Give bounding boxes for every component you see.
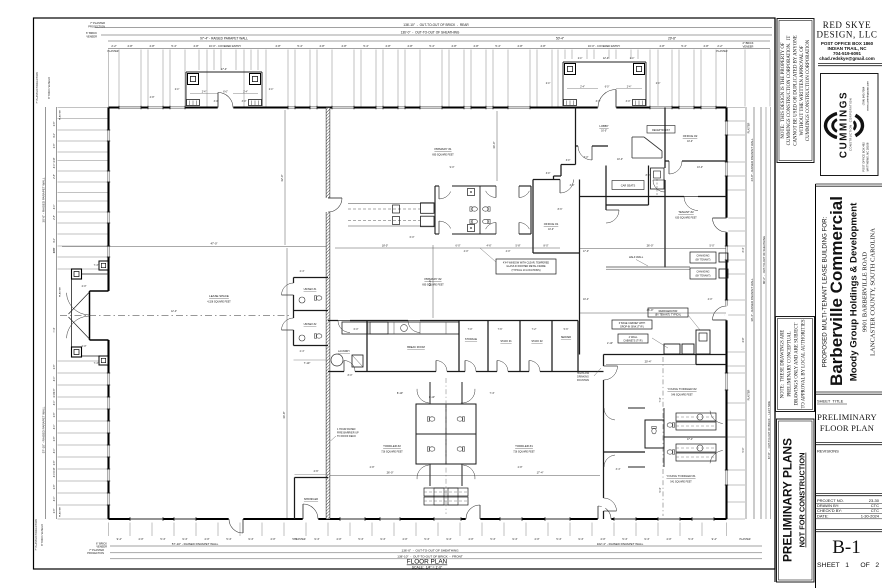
svg-text:7'-6": 7'-6" — [498, 328, 503, 331]
svg-text:3'-0": 3'-0" — [584, 156, 589, 159]
svg-text:4'-0": 4'-0" — [54, 238, 56, 243]
svg-text:2'-0": 2'-0" — [82, 285, 87, 288]
svg-text:4'-0": 4'-0" — [468, 537, 473, 541]
svg-text:2'-4": 2'-4" — [175, 89, 180, 91]
svg-text:4'-0": 4'-0" — [54, 164, 56, 169]
svg-text:4'-0": 4'-0" — [336, 537, 341, 541]
svg-text:30'-4" - RAISED PARAPET WALL: 30'-4" - RAISED PARAPET WALL — [750, 278, 754, 322]
svg-text:PRELIMINARY PLANS: PRELIMINARY PLANS — [781, 438, 795, 562]
svg-text:690 SQUARE FEET: 690 SQUARE FEET — [432, 154, 454, 157]
svg-text:9'-4": 9'-4" — [314, 537, 319, 541]
svg-text:29'-8": 29'-8" — [668, 37, 676, 41]
svg-text:STORAGE: STORAGE — [465, 338, 478, 341]
svg-text:4'-8": 4'-8" — [385, 44, 390, 48]
svg-text:7" PLASTER PROJECTION: 7" PLASTER PROJECTION — [36, 72, 39, 103]
svg-text:CAR SEATS: CAR SEATS — [621, 184, 636, 188]
svg-text:7" PLASTER PROJECTION: 7" PLASTER PROJECTION — [35, 519, 38, 550]
svg-text:5'-4": 5'-4" — [681, 44, 686, 48]
svg-text:7" PLASTER: 7" PLASTER — [90, 21, 105, 25]
svg-text:2'-4": 2'-4" — [243, 91, 248, 93]
svg-text:4'-8": 4'-8" — [659, 44, 664, 48]
svg-text:9'-4": 9'-4" — [512, 537, 517, 541]
svg-text:Moody Group Holdings & Develop: Moody Group Holdings & Development — [849, 202, 860, 381]
svg-text:PLASTER: PLASTER — [748, 389, 751, 400]
svg-text:4'-8": 4'-8" — [517, 44, 522, 48]
svg-text:4'-0": 4'-0" — [54, 497, 56, 502]
svg-text:7'-2": 7'-2" — [532, 328, 537, 331]
svg-text:2'-8": 2'-8" — [54, 122, 56, 127]
svg-text:PLASTER: PLASTER — [59, 110, 62, 120]
svg-text:4'-0": 4'-0" — [506, 250, 511, 253]
svg-text:(BY TENANT) TYPICAL: (BY TENANT) TYPICAL — [655, 314, 682, 317]
svg-text:LANCASTER COUNTY, SOUTH CAROLI: LANCASTER COUNTY, SOUTH CAROLINA — [870, 228, 877, 356]
svg-text:5'-4": 5'-4" — [490, 537, 495, 541]
svg-text:NOTE: THESE DRAWINGS ARE: NOTE: THESE DRAWINGS ARE — [781, 330, 786, 399]
svg-text:6" BRICK: 6" BRICK — [86, 31, 97, 35]
svg-text:UNISEX #1: UNISEX #1 — [304, 288, 317, 291]
svg-text:5'-4": 5'-4" — [424, 537, 429, 541]
svg-text:UNISEX #2: UNISEX #2 — [304, 323, 317, 326]
svg-text:2'-8": 2'-8" — [370, 466, 375, 469]
svg-text:17'-0": 17'-0" — [583, 250, 589, 253]
svg-text:36'-0": 36'-0" — [492, 141, 496, 148]
svg-text:9'-4": 9'-4" — [712, 537, 717, 541]
svg-text:2'-4": 2'-4" — [627, 86, 632, 88]
svg-text:4'-0": 4'-0" — [54, 473, 56, 478]
svg-text:5'-4": 5'-4" — [363, 44, 368, 48]
svg-text:9'-4": 9'-4" — [248, 537, 253, 541]
svg-text:2'-4": 2'-4" — [630, 58, 635, 60]
svg-text:Barberville Commercial: Barberville Commercial — [827, 196, 846, 386]
svg-text:8'-6": 8'-6" — [558, 208, 563, 211]
svg-text:2'-8": 2'-8" — [54, 365, 56, 370]
svg-text:86'-2" - OUT-TO-OUT OF SHEAT: 86'-2" - OUT-TO-OUT OF SHEATHING — [762, 236, 766, 284]
svg-text:FLOOR PLAN: FLOOR PLAN — [407, 559, 448, 566]
svg-text:32'-0": 32'-0" — [280, 174, 284, 181]
svg-text:8'-10": 8'-10" — [397, 392, 403, 395]
svg-text:TO ROOF DECK: TO ROOF DECK — [337, 435, 356, 438]
svg-text:2'-2": 2'-2" — [111, 44, 116, 48]
svg-text:CANNOT BE USED OR DUPLICATED B: CANNOT BE USED OR DUPLICATED BY ANYONE — [794, 35, 799, 146]
svg-text:4'-0": 4'-0" — [54, 133, 56, 138]
svg-text:3'-0": 3'-0" — [596, 100, 601, 103]
svg-text:5'-4": 5'-4" — [622, 537, 627, 541]
svg-text:PLASTER: PLASTER — [59, 287, 62, 297]
svg-text:12'-4": 12'-4" — [603, 57, 609, 60]
svg-text:2" BRICK: 2" BRICK — [742, 41, 753, 45]
svg-text:CONSTRUCTION CORPORATION: CONSTRUCTION CORPORATION — [849, 98, 853, 151]
svg-text:4'-0": 4'-0" — [54, 425, 56, 430]
svg-text:CUMMINGS: CUMMINGS — [839, 91, 850, 158]
svg-text:2'-4": 2'-4" — [656, 83, 661, 85]
svg-text:TENANT #2: TENANT #2 — [678, 210, 694, 214]
svg-text:2'-8": 2'-8" — [54, 413, 56, 418]
svg-text:9'-4": 9'-4" — [644, 537, 649, 541]
svg-text:4'-8": 4'-8" — [473, 44, 478, 48]
svg-text:50'-4": 50'-4" — [556, 37, 564, 41]
svg-text:4'-0": 4'-0" — [138, 537, 143, 541]
svg-text:136'-0" - OUT-TO-OUT OF SHEA: 136'-0" - OUT-TO-OUT OF SHEATHING — [401, 549, 459, 553]
svg-text:4' WALL: 4' WALL — [629, 336, 639, 339]
svg-text:4'X4' WINDOW WITH CLEAR, TEMPE: 4'X4' WINDOW WITH CLEAR, TEMPERED — [503, 262, 550, 265]
svg-text:5'-0": 5'-0" — [710, 245, 715, 248]
svg-text:(BY TENANT): (BY TENANT) — [696, 275, 711, 278]
svg-text:2'-0": 2'-0" — [82, 345, 87, 348]
svg-text:4'-8": 4'-8" — [540, 44, 545, 48]
svg-text:9'-0": 9'-0" — [450, 166, 455, 169]
svg-text:8'-6": 8'-6" — [646, 174, 651, 177]
svg-text:4'-8": 4'-8" — [703, 44, 708, 48]
svg-text:5'-4": 5'-4" — [160, 537, 165, 541]
svg-text:87'-8" - OUT-TO-OUT OF BRICK: 87'-8" - OUT-TO-OUT OF BRICK - LEFT SIDE — [767, 401, 771, 459]
svg-text:4'-0": 4'-0" — [402, 537, 407, 541]
svg-text:TODDLER #1: TODDLER #1 — [515, 444, 533, 448]
svg-text:17'-4": 17'-4" — [687, 438, 693, 441]
svg-text:SHEET 1 OF 2: SHEET 1 OF 2 — [817, 562, 879, 569]
svg-text:2'-4": 2'-4" — [269, 89, 274, 91]
svg-text:4'-6": 4'-6" — [487, 245, 492, 248]
svg-text:4'-8": 4'-8" — [193, 44, 198, 48]
svg-text:7'-4": 7'-4" — [94, 362, 99, 365]
svg-text:30'-0" - RAISED PARAPET WALL: 30'-0" - RAISED PARAPET WALL — [42, 177, 46, 222]
svg-text:36'-8": 36'-8" — [282, 411, 286, 418]
svg-text:2'-4": 2'-4" — [300, 350, 305, 353]
svg-text:3'-0": 3'-0" — [242, 100, 247, 103]
svg-text:4'-8": 4'-8" — [742, 337, 745, 342]
svg-text:3'-0": 3'-0" — [546, 173, 551, 175]
svg-text:PLASTER: PLASTER — [740, 538, 751, 541]
svg-text:(TYPICAL 10 LOCATIONS): (TYPICAL 10 LOCATIONS) — [511, 269, 540, 272]
svg-text:TODDLER #2: TODDLER #2 — [383, 444, 401, 448]
svg-text:WITHOUT THE WRITTEN APPROVAL O: WITHOUT THE WRITTEN APPROVAL OF — [800, 45, 805, 135]
svg-text:44'-8" - RAISED PARAPET WALL: 44'-8" - RAISED PARAPET WALL — [750, 138, 754, 182]
svg-text:47'-0": 47'-0" — [210, 242, 217, 246]
svg-text:2'-4": 2'-4" — [578, 58, 583, 60]
svg-text:REVISIONS: REVISIONS — [817, 449, 839, 454]
svg-text:5'-8": 5'-8" — [516, 245, 521, 248]
svg-text:4'-0": 4'-0" — [204, 537, 209, 541]
svg-text:8'-10": 8'-10" — [429, 396, 435, 399]
svg-text:6" BRICK VENEER: 6" BRICK VENEER — [48, 77, 51, 99]
svg-text:CUMMINGS CONSTRUCTION CORPORAT: CUMMINGS CONSTRUCTION CORPORATION — [806, 39, 811, 141]
svg-text:1-30-2024: 1-30-2024 — [861, 513, 880, 518]
svg-text:10'-0": 10'-0" — [687, 141, 693, 143]
svg-text:4'-0": 4'-0" — [600, 537, 605, 541]
svg-text:16'-0": 16'-0" — [601, 131, 607, 133]
svg-text:9'-4": 9'-4" — [578, 537, 583, 541]
svg-text:CHANGING: CHANGING — [697, 271, 710, 274]
svg-text:DESIGN, LLC: DESIGN, LLC — [816, 30, 877, 40]
svg-text:4'-8": 4'-8" — [451, 44, 456, 48]
svg-text:7'-4": 7'-4" — [659, 397, 662, 402]
svg-text:3'-4": 3'-4" — [616, 468, 621, 471]
svg-text:CUMMINGS CONSTRUCTION CORPORAT: CUMMINGS CONSTRUCTION CORPORATION. IT — [787, 36, 792, 146]
svg-text:3'-0": 3'-0" — [566, 160, 571, 162]
svg-text:46'-0": 46'-0" — [647, 308, 654, 312]
svg-text:6' BASE CABINET WITH: 6' BASE CABINET WITH — [619, 322, 646, 325]
svg-text:PLASTER: PLASTER — [295, 538, 306, 541]
svg-text:136'-0" - OUT-TO-OUT OF SHEA: 136'-0" - OUT-TO-OUT OF SHEATHING — [401, 31, 460, 35]
svg-text:DRAWINGS ONLY AND ARE SUBJECT: DRAWINGS ONLY AND ARE SUBJECT — [795, 323, 800, 406]
svg-text:5'-0": 5'-0" — [742, 447, 745, 452]
svg-text:FLOOR PLAN: FLOOR PLAN — [820, 423, 874, 433]
svg-text:RECEPTIONIST: RECEPTIONIST — [652, 129, 670, 132]
svg-text:16'-0" - COVERED ENTRY: 16'-0" - COVERED ENTRY — [588, 44, 621, 48]
svg-text:TO APPROVAL BY LOCAL AUTHORITI: TO APPROVAL BY LOCAL AUTHORITIES — [802, 319, 807, 408]
svg-text:6'-0": 6'-0" — [354, 328, 359, 331]
svg-text:MATTHEWS, NC 28106: MATTHEWS, NC 28106 — [866, 142, 870, 171]
svg-text:4'-8": 4'-8" — [127, 44, 132, 48]
svg-text:2'-8": 2'-8" — [54, 461, 56, 466]
svg-text:4'-0": 4'-0" — [534, 537, 539, 541]
svg-text:630 SQUARE FEET: 630 SQUARE FEET — [675, 217, 697, 220]
svg-text:OFFICE #1: OFFICE #1 — [544, 222, 559, 226]
svg-text:4,328 SQUARE FEET: 4,328 SQUARE FEET — [207, 301, 231, 304]
svg-text:4'-0": 4'-0" — [708, 298, 713, 301]
svg-text:102'-4" - RAISED PARAPET WALL: 102'-4" - RAISED PARAPET WALL — [597, 542, 644, 546]
svg-text:546 SQUARE FEET: 546 SQUARE FEET — [671, 394, 693, 397]
svg-text:7'-4": 7'-4" — [490, 392, 495, 395]
svg-text:PRIMARY #1: PRIMARY #1 — [434, 147, 451, 151]
svg-text:8'-0": 8'-0" — [544, 245, 549, 248]
svg-text:2'-8": 2'-8" — [54, 437, 56, 442]
svg-text:2'-2": 2'-2" — [717, 44, 722, 48]
svg-text:7'-4": 7'-4" — [52, 327, 56, 332]
svg-text:2'-4": 2'-4" — [546, 83, 551, 85]
svg-text:YOUNG TODDLER #1: YOUNG TODDLER #1 — [666, 474, 696, 478]
svg-text:13'-0": 13'-0" — [697, 166, 703, 169]
svg-text:PROJECTION: PROJECTION — [88, 25, 105, 29]
svg-text:9901 BARBERVILLE ROAD: 9901 BARBERVILLE ROAD — [862, 252, 869, 332]
svg-text:4'-6": 4'-6" — [314, 470, 319, 473]
svg-text:5'-4": 5'-4" — [226, 537, 231, 541]
svg-text:PROJECTION: PROJECTION — [87, 551, 104, 555]
svg-text:POST OFFICE BOX 492: POST OFFICE BOX 492 — [862, 142, 866, 172]
svg-text:6'-0": 6'-0" — [410, 236, 415, 239]
svg-text:5'-4": 5'-4" — [358, 537, 363, 541]
svg-text:VENEER: VENEER — [86, 35, 97, 39]
svg-text:9'-4": 9'-4" — [380, 537, 385, 541]
svg-text:3'-0": 3'-0" — [214, 100, 219, 103]
svg-text:26'-0": 26'-0" — [647, 244, 654, 248]
svg-text:4'-8": 4'-8" — [319, 44, 324, 48]
svg-text:10'-4": 10'-4" — [583, 298, 589, 301]
svg-text:PLASTER: PLASTER — [108, 50, 119, 53]
svg-text:4'-0": 4'-0" — [54, 205, 56, 210]
svg-text:DROP-IN SINK (TYP.): DROP-IN SINK (TYP.) — [620, 326, 644, 329]
svg-text:18'-0": 18'-0" — [382, 245, 388, 248]
svg-text:17'-4": 17'-4" — [537, 471, 544, 475]
svg-text:5'-4": 5'-4" — [556, 537, 561, 541]
svg-text:12'-0": 12'-0" — [171, 310, 177, 313]
svg-text:726 SQUARE FEET: 726 SQUARE FEET — [381, 451, 403, 454]
svg-text:3'-0": 3'-0" — [570, 184, 575, 187]
svg-text:2'-4": 2'-4" — [300, 270, 305, 273]
svg-text:541 SQUARE FEET: 541 SQUARE FEET — [670, 481, 692, 484]
svg-text:97'-4" - RAISED PARAPET WALL: 97'-4" - RAISED PARAPET WALL — [200, 37, 248, 41]
svg-text:2'-4": 2'-4" — [202, 91, 207, 93]
svg-text:YOUNG TODDLER #2: YOUNG TODDLER #2 — [667, 387, 697, 391]
svg-text:14'-0": 14'-0" — [428, 280, 432, 287]
svg-text:4'-8": 4'-8" — [150, 96, 155, 99]
svg-text:SPRINKLER: SPRINKLER — [304, 498, 318, 501]
svg-text:chad.redskye@gmail.com: chad.redskye@gmail.com — [819, 56, 874, 61]
svg-text:DATE:: DATE: — [817, 513, 828, 518]
svg-text:4'-0": 4'-0" — [54, 449, 56, 454]
svg-text:(704) 843-7064: (704) 843-7064 — [862, 86, 866, 105]
svg-text:NOT FOR CONSTRUCTION: NOT FOR CONSTRUCTION — [798, 453, 807, 548]
svg-text:9'-4": 9'-4" — [182, 537, 187, 541]
svg-text:VENEER: VENEER — [96, 545, 107, 549]
svg-text:SERVER: SERVER — [561, 336, 571, 339]
svg-text:2'-8": 2'-8" — [54, 249, 56, 254]
svg-text:5'-4": 5'-4" — [688, 537, 693, 541]
svg-text:5'-4": 5'-4" — [495, 44, 500, 48]
svg-text:2'-8": 2'-8" — [518, 466, 523, 469]
svg-text:HALF WALL: HALF WALL — [629, 255, 644, 259]
svg-text:4'-0": 4'-0" — [270, 537, 275, 541]
svg-text:57'-10" - RAISED PARAPET WALL: 57'-10" - RAISED PARAPET WALL — [172, 542, 219, 546]
svg-text:www.cummingscorp.com: www.cummingscorp.com — [866, 80, 870, 110]
svg-text:OFFICE #2: OFFICE #2 — [683, 134, 698, 138]
svg-text:2'-10": 2'-10" — [607, 342, 613, 345]
svg-text:20'-4": 20'-4" — [645, 360, 652, 364]
svg-text:LEASE SPACE: LEASE SPACE — [209, 294, 229, 298]
svg-text:7'-10": 7'-10" — [304, 361, 311, 365]
svg-text:CABINETS (TYP.): CABINETS (TYP.) — [623, 340, 642, 343]
svg-text:5'-4": 5'-4" — [171, 44, 176, 48]
svg-text:2'-8": 2'-8" — [54, 144, 56, 149]
svg-text:4'-8": 4'-8" — [275, 44, 280, 48]
svg-text:8'-0": 8'-0" — [348, 374, 353, 377]
svg-text:5'-6": 5'-6" — [564, 328, 569, 331]
svg-text:5'-4": 5'-4" — [297, 44, 302, 48]
svg-text:16'-0" - COVERED ENTRY: 16'-0" - COVERED ENTRY — [209, 44, 242, 48]
svg-text:PRELIMINARY: PRELIMINARY — [817, 412, 877, 422]
svg-text:6" BRICK VENEER: 6" BRICK VENEER — [41, 524, 44, 546]
svg-text:4'-0": 4'-0" — [54, 401, 56, 406]
svg-text:2'-8": 2'-8" — [52, 467, 56, 472]
svg-text:3'-0": 3'-0" — [626, 100, 631, 103]
svg-text:2'-4": 2'-4" — [580, 86, 585, 88]
svg-text:4'-0": 4'-0" — [464, 250, 469, 253]
svg-text:LAUNDRY: LAUNDRY — [338, 350, 350, 353]
svg-text:26'-0": 26'-0" — [387, 471, 394, 475]
svg-text:7'-4": 7'-4" — [94, 264, 99, 267]
svg-text:5'-4": 5'-4" — [429, 44, 434, 48]
svg-text:PLASTER: PLASTER — [748, 122, 751, 133]
svg-text:STAFF #2: STAFF #2 — [531, 340, 543, 343]
svg-text:SCALE: 1/4" = 1'-0": SCALE: 1/4" = 1'-0" — [412, 566, 443, 570]
svg-text:2'-8": 2'-8" — [54, 174, 56, 179]
svg-text:6'-0": 6'-0" — [456, 245, 461, 248]
svg-text:4'-8": 4'-8" — [52, 157, 56, 162]
svg-text:3'-4": 3'-4" — [742, 247, 745, 252]
svg-text:7'-0": 7'-0" — [468, 328, 473, 331]
svg-text:9'-4": 9'-4" — [117, 537, 122, 541]
svg-text:B-1: B-1 — [832, 537, 861, 558]
svg-text:VENEER: VENEER — [743, 45, 754, 49]
svg-text:6'-0": 6'-0" — [223, 91, 228, 93]
svg-text:10'-0": 10'-0" — [617, 158, 623, 161]
svg-text:PRELIMINARY CONCEPTUAL: PRELIMINARY CONCEPTUAL — [788, 331, 793, 396]
svg-text:10'-0": 10'-0" — [548, 229, 554, 231]
svg-text:STAFF #1: STAFF #1 — [500, 340, 512, 343]
svg-text:REFRIGERATOR: REFRIGERATOR — [659, 310, 678, 313]
svg-text:9'-4": 9'-4" — [446, 537, 451, 541]
svg-text:2'-8": 2'-8" — [54, 485, 56, 490]
svg-text:SHEET TITLE: SHEET TITLE — [817, 399, 844, 404]
svg-text:4'-8": 4'-8" — [341, 44, 346, 48]
svg-text:GLASS IN PAINTED METAL FRAME: GLASS IN PAINTED METAL FRAME — [506, 265, 546, 268]
svg-text:PLASTER: PLASTER — [59, 507, 62, 517]
svg-text:LOBBY: LOBBY — [599, 124, 608, 128]
svg-text:5'-4": 5'-4" — [659, 487, 662, 492]
svg-text:CHANGING: CHANGING — [697, 255, 710, 258]
svg-text:(BY TENANT): (BY TENANT) — [696, 259, 711, 262]
svg-text:BREAK ROOM: BREAK ROOM — [407, 345, 425, 349]
svg-text:726 SQUARE FEET: 726 SQUARE FEET — [513, 451, 535, 454]
svg-text:PLASTER: PLASTER — [717, 50, 728, 53]
svg-text:136'-10" - OUT-TO-OUT OF BRI: 136'-10" - OUT-TO-OUT OF BRICK - REAR — [403, 23, 469, 27]
svg-text:4'-8": 4'-8" — [407, 44, 412, 48]
svg-text:FOUNTAIN: FOUNTAIN — [577, 379, 589, 382]
svg-text:NOTE: THIS DESIGN IS THE PROP: NOTE: THIS DESIGN IS THE PROPERTY OF — [781, 42, 786, 138]
svg-text:2'-8": 2'-8" — [54, 389, 56, 394]
svg-text:4'-8": 4'-8" — [149, 44, 154, 48]
svg-text:4'-0": 4'-0" — [54, 377, 56, 382]
svg-text:4'-0": 4'-0" — [666, 537, 671, 541]
svg-text:6'-0": 6'-0" — [605, 86, 610, 88]
svg-text:2'-8": 2'-8" — [54, 509, 56, 514]
svg-text:RED SKYE: RED SKYE — [823, 20, 872, 30]
svg-text:57'-10" - RAISED PARAPET WALL: 57'-10" - RAISED PARAPET WALL — [42, 406, 46, 453]
svg-text:690 SQUARE FEET: 690 SQUARE FEET — [422, 284, 444, 287]
svg-text:17'-4": 17'-4" — [221, 68, 227, 71]
svg-text:2'-8": 2'-8" — [54, 215, 56, 220]
